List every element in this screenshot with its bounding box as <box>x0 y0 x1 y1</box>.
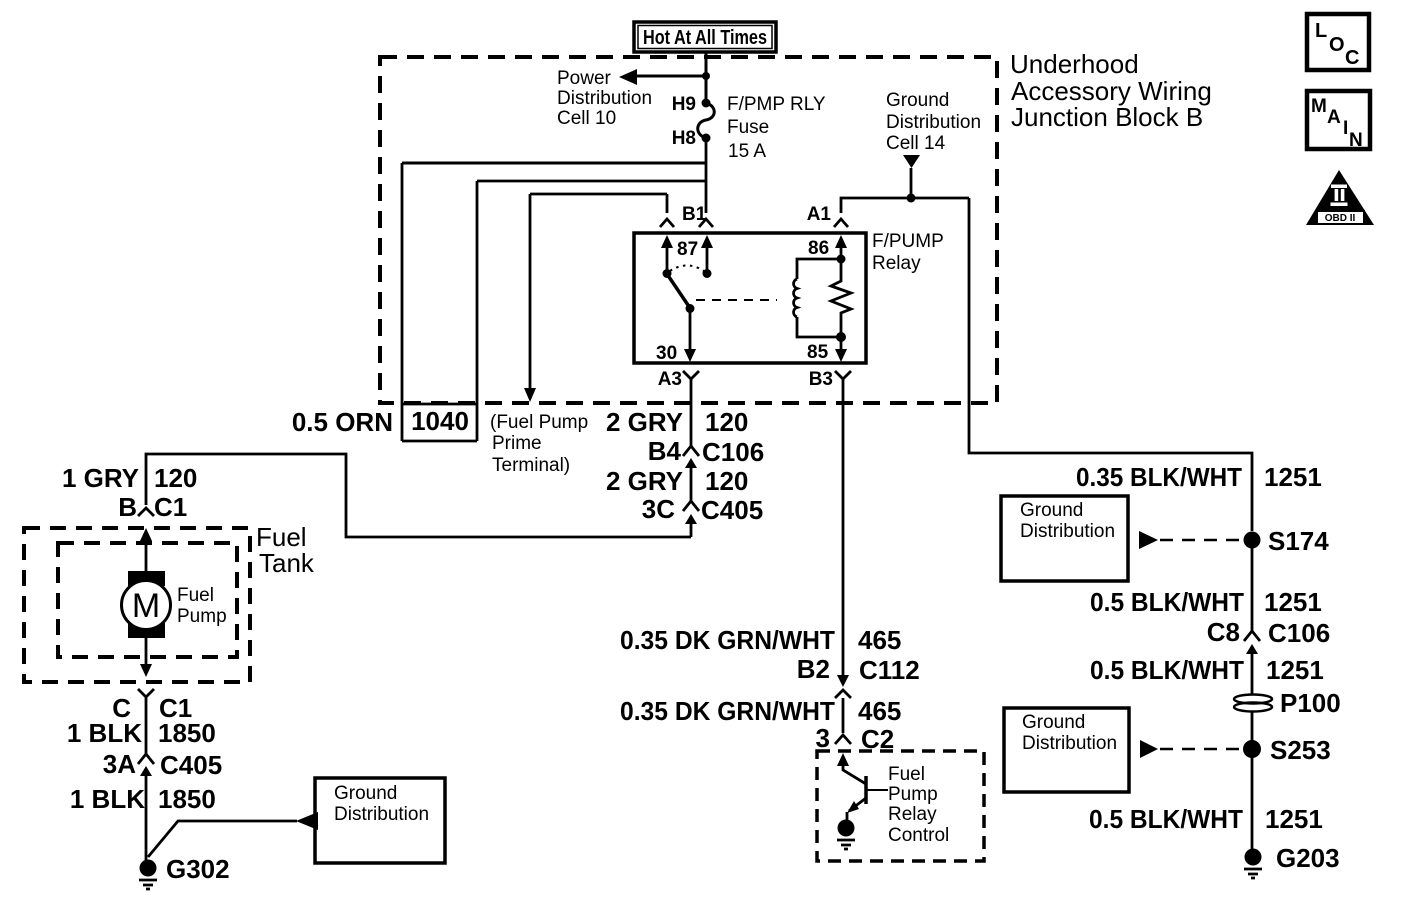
Hot At All Times box <box>634 22 776 52</box>
svg-text:3C: 3C <box>642 494 675 524</box>
relay coil loop <box>797 259 841 337</box>
label fuse name <box>727 94 826 162</box>
label F/PUMP Relay <box>872 231 944 274</box>
wire horizontal y181 <box>477 180 706 183</box>
label B C1 <box>118 492 187 522</box>
svg-text:C8: C8 <box>1207 617 1240 647</box>
svg-text:M: M <box>1311 96 1327 117</box>
svg-text:B3: B3 <box>809 369 833 390</box>
svg-text:15 A: 15 A <box>728 141 766 162</box>
wire A3 down <box>690 381 693 446</box>
label 0.35 BLK/WHT 1251 <box>1076 462 1322 492</box>
svg-text:Fuel: Fuel <box>177 585 214 606</box>
coil <box>794 279 797 317</box>
junction block B dashed boundary <box>380 57 997 403</box>
svg-text:A: A <box>1327 107 1341 128</box>
label 30 <box>656 343 677 364</box>
label 3A C405 <box>103 749 222 780</box>
fuel tank outer dashed box <box>24 528 250 682</box>
svg-text:1850: 1850 <box>158 784 216 814</box>
svg-text:Ground: Ground <box>1022 712 1085 733</box>
svg-text:Cell 14: Cell 14 <box>886 133 946 154</box>
svg-text:I: I <box>1343 118 1348 139</box>
icon MAIN <box>1307 91 1370 151</box>
label G203 <box>1276 843 1340 873</box>
resistor <box>831 259 851 337</box>
connector C8 C106 <box>1244 631 1260 656</box>
svg-text:H9: H9 <box>672 94 696 115</box>
arrow to ground distribution left <box>296 812 318 830</box>
svg-text:87: 87 <box>677 239 698 260</box>
connector A1 <box>834 219 848 227</box>
connector 3 C2 <box>835 735 851 744</box>
ground G203 <box>1244 849 1262 879</box>
svg-text:Pump: Pump <box>177 606 227 627</box>
junction dot cell14 <box>907 194 916 203</box>
switch blade <box>667 274 690 308</box>
svg-text:A1: A1 <box>807 204 832 225</box>
dashed wire to S174 <box>1160 539 1244 542</box>
svg-text:Tank: Tank <box>259 548 315 578</box>
label 0.5 ORN <box>292 407 393 437</box>
label H8 <box>672 128 696 149</box>
wire vertical x667 to B1 left <box>666 194 669 213</box>
svg-text:1850: 1850 <box>158 718 216 748</box>
svg-text:0.5 BLK/WHT: 0.5 BLK/WHT <box>1090 587 1244 617</box>
label C8 C106 <box>1207 617 1330 648</box>
label Ground Distribution Cell 14 <box>886 90 981 154</box>
relay pin 87 arrows <box>661 235 713 273</box>
wire A1 up and across <box>841 198 969 213</box>
relay coil dots <box>836 255 846 343</box>
label B1 <box>682 204 707 225</box>
dashed wire to S253 <box>1160 748 1243 751</box>
wire to power distribution <box>636 75 706 78</box>
icon OBD II triangle <box>1306 170 1374 225</box>
label Underhood Accessory Wiring Junction Block B <box>1010 49 1212 132</box>
svg-text:Ground: Ground <box>1020 500 1083 521</box>
svg-text:C112: C112 <box>859 655 920 685</box>
label 87 <box>677 239 698 260</box>
svg-text:1251: 1251 <box>1266 655 1324 685</box>
label 3 C2 <box>816 723 895 754</box>
arrow from box 2 <box>1140 740 1158 758</box>
svg-text:Fuel: Fuel <box>888 764 925 785</box>
wire routing to fuel tank <box>146 454 691 537</box>
fuel tank inner dashed box <box>58 543 237 657</box>
label 86 <box>808 238 829 259</box>
svg-text:B: B <box>118 492 137 522</box>
svg-text:120: 120 <box>705 466 748 496</box>
label 0.35 DK GRN/WHT 465 row2 <box>620 696 901 726</box>
svg-text:(Fuel Pump: (Fuel Pump <box>490 412 588 433</box>
svg-text:G302: G302 <box>166 854 230 884</box>
svg-text:30: 30 <box>656 343 677 364</box>
relay pin 30 arrow <box>684 308 696 362</box>
svg-text:N: N <box>1349 130 1363 151</box>
wire S253 to G203 <box>1251 749 1254 849</box>
svg-text:S253: S253 <box>1270 735 1331 765</box>
fuel pump relay control dashed box <box>817 751 984 861</box>
dashed actuator link <box>696 299 777 301</box>
ground distribution box right 2 <box>1004 708 1129 792</box>
svg-text:0.35 DK GRN/WHT: 0.35 DK GRN/WHT <box>620 696 835 726</box>
triangle ground distribution cell 14 <box>903 155 920 168</box>
svg-text:C405: C405 <box>701 495 763 525</box>
svg-text:Distribution: Distribution <box>1022 733 1117 754</box>
connector B4 C106 <box>683 446 699 468</box>
grommet P100 <box>1234 695 1272 712</box>
svg-text:L: L <box>1315 20 1327 42</box>
svg-text:G203: G203 <box>1276 843 1340 873</box>
wire vertical x477 (0.5 ORN) <box>476 181 479 441</box>
svg-text:1251: 1251 <box>1264 462 1322 492</box>
label C C1 <box>112 693 192 723</box>
svg-text:B4: B4 <box>648 436 682 466</box>
svg-text:M: M <box>132 587 160 625</box>
label B4 C106 <box>648 436 764 467</box>
svg-text:1 GRY: 1 GRY <box>62 463 139 493</box>
relay switch dots <box>663 269 712 313</box>
label (Fuel Pump Prime Terminal) <box>490 412 588 476</box>
svg-text:0.5 BLK/WHT: 0.5 BLK/WHT <box>1089 804 1243 834</box>
svg-text:120: 120 <box>154 463 197 493</box>
svg-text:Underhood: Underhood <box>1010 49 1139 79</box>
label H9 <box>672 94 696 115</box>
wire B3 down <box>842 381 845 676</box>
svg-text:Pump: Pump <box>888 784 938 805</box>
branch wire to ground distribution <box>148 821 297 857</box>
label G302 <box>166 854 230 884</box>
svg-text:Ground: Ground <box>334 783 397 804</box>
svg-text:1040: 1040 <box>411 406 469 436</box>
relay box F/PUMP <box>634 233 866 363</box>
svg-text:Relay: Relay <box>872 253 921 274</box>
svg-text:C106: C106 <box>1268 618 1330 648</box>
svg-text:Distribution: Distribution <box>886 112 981 133</box>
label 1 BLK 1850 <box>67 718 216 748</box>
wire horizontal y163 <box>402 162 706 165</box>
svg-text:1251: 1251 <box>1264 587 1322 617</box>
svg-text:Fuse: Fuse <box>727 117 769 138</box>
splice S174 <box>1244 532 1261 549</box>
ground in relay control box <box>837 820 855 850</box>
svg-text:B1: B1 <box>682 204 707 225</box>
ground distribution box right 1 <box>1001 496 1128 581</box>
svg-text:Control: Control <box>888 825 949 846</box>
ground G302 <box>139 860 157 890</box>
label S253 <box>1270 735 1331 765</box>
fuel pump motor M <box>122 571 171 638</box>
wire into tank with up arrow <box>140 528 152 572</box>
ground distribution box left <box>315 778 445 863</box>
svg-text:Distribution: Distribution <box>557 88 652 109</box>
transistor Q fuel pump driver <box>837 753 888 820</box>
svg-text:OBD II: OBD II <box>1325 213 1356 224</box>
svg-text:O: O <box>1329 34 1345 56</box>
svg-text:2 GRY: 2 GRY <box>606 407 683 437</box>
label Fuel Pump Relay Control <box>888 764 949 846</box>
wire S174 to C106 <box>1251 540 1254 631</box>
wire below C1 <box>145 705 148 754</box>
svg-text:2 GRY: 2 GRY <box>606 466 683 496</box>
connector 3A C405 <box>138 754 154 776</box>
svg-text:P100: P100 <box>1280 688 1341 718</box>
svg-text:Distribution: Distribution <box>334 804 429 825</box>
connector 3C C405 <box>683 501 699 537</box>
label B2 C112 <box>797 654 920 685</box>
label B3 <box>809 369 833 390</box>
svg-text:1 BLK: 1 BLK <box>67 718 142 748</box>
arrow from box 1 <box>1139 531 1158 549</box>
connector C C1 <box>138 689 154 705</box>
wire down to G302 <box>145 772 148 860</box>
wire between C112 C2 <box>842 698 845 733</box>
svg-text:3: 3 <box>816 723 830 753</box>
wire vertical x402 (0.5 ORN) <box>401 163 404 441</box>
svg-text:C405: C405 <box>160 750 222 780</box>
wire up to cell 14 triangle <box>910 168 913 198</box>
svg-text:0.5 ORN: 0.5 ORN <box>292 407 393 437</box>
svg-text:Power: Power <box>557 68 612 89</box>
wire A1 branch down right side <box>969 198 1252 531</box>
svg-text:Distribution: Distribution <box>1020 521 1115 542</box>
connector B3 <box>835 371 851 381</box>
svg-text:465: 465 <box>858 696 901 726</box>
label 0.35 DK GRN/WHT 465 <box>620 625 901 655</box>
junction dot <box>702 72 710 80</box>
label 1 GRY 120 <box>62 463 197 493</box>
svg-text:Relay: Relay <box>888 804 937 825</box>
svg-text:0.5 BLK/WHT: 0.5 BLK/WHT <box>1090 655 1244 685</box>
label Power Distribution Cell 10 <box>557 68 652 129</box>
svg-text:120: 120 <box>705 407 748 437</box>
svg-text:Terminal): Terminal) <box>492 455 570 476</box>
svg-text:F/PUMP: F/PUMP <box>872 231 944 252</box>
svg-text:86: 86 <box>808 238 829 259</box>
svg-text:C: C <box>1345 47 1359 69</box>
relay pin 85 arrow <box>835 337 847 362</box>
svg-text:C1: C1 <box>154 492 187 522</box>
svg-text:0.35 BLK/WHT: 0.35 BLK/WHT <box>1076 462 1242 492</box>
svg-text:A3: A3 <box>658 369 682 390</box>
svg-text:Cell 10: Cell 10 <box>557 108 616 129</box>
label A1 <box>807 204 832 225</box>
svg-text:Ground: Ground <box>886 90 949 111</box>
connector A3 <box>683 371 699 381</box>
label A3 <box>658 369 682 390</box>
label Fuel Pump motor <box>177 585 227 627</box>
label P100 <box>1280 688 1341 718</box>
connector B1 right <box>699 219 713 227</box>
wire out of motor with down arrow <box>140 638 152 677</box>
wire from Hot At All Times down to fuse <box>705 52 708 103</box>
connector B2 C112 <box>835 675 851 698</box>
wire between connectors <box>690 468 693 501</box>
label 0.5 BLK/WHT 1251 row2 <box>1090 655 1324 685</box>
relay pin 86 arrow <box>835 235 847 259</box>
dotted arc <box>670 266 704 272</box>
svg-text:Hot At All Times: Hot At All Times <box>643 27 767 49</box>
svg-text:B2: B2 <box>797 654 830 684</box>
label Fuel Tank <box>256 522 315 578</box>
wire P100 to S253 <box>1251 711 1254 749</box>
wire fuel pump prime terminal with arrow <box>524 194 536 402</box>
svg-text:C106: C106 <box>702 437 764 467</box>
svg-text:Prime: Prime <box>492 433 542 454</box>
connector B1 left <box>660 219 674 227</box>
label 85 <box>807 342 829 363</box>
box 1040 <box>402 404 477 441</box>
label 0.5 BLK/WHT 1251 <box>1090 587 1322 617</box>
label 2 GRY 120 row2 <box>606 466 748 496</box>
svg-text:Junction Block B: Junction Block B <box>1011 102 1203 132</box>
svg-text:1251: 1251 <box>1265 804 1323 834</box>
svg-text:H8: H8 <box>672 128 696 149</box>
label S174 <box>1268 526 1329 556</box>
svg-text:S174: S174 <box>1268 526 1329 556</box>
svg-text:85: 85 <box>807 342 829 363</box>
fuse F/PMP RLY 15A <box>698 99 715 143</box>
splice S253 <box>1243 740 1261 758</box>
svg-text:F/PMP RLY: F/PMP RLY <box>727 94 826 115</box>
svg-text:0.35 DK GRN/WHT: 0.35 DK GRN/WHT <box>620 625 835 655</box>
svg-text:3A: 3A <box>103 749 136 779</box>
icon LOC <box>1307 14 1369 70</box>
wire C106 to P100 <box>1251 656 1254 694</box>
svg-text:1 BLK: 1 BLK <box>70 784 145 814</box>
wire horizontal y194 <box>530 193 667 196</box>
connector B C1 <box>138 508 154 516</box>
label 2 GRY 120 <box>606 407 748 437</box>
label 0.5 BLK/WHT 1251 row3 <box>1089 804 1323 834</box>
svg-text:465: 465 <box>858 625 901 655</box>
arrow power distribution <box>619 69 637 85</box>
label 1 BLK 1850 row2 <box>70 784 216 814</box>
wire fuse down to B1 right pin <box>705 138 708 213</box>
label 3C C405 <box>642 494 763 525</box>
